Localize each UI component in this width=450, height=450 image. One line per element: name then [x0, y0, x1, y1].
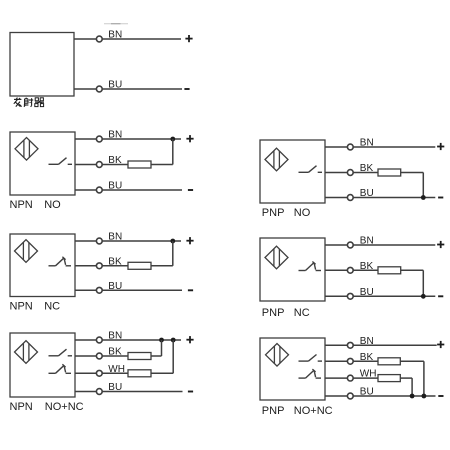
svg-text:BU: BU [108, 281, 122, 292]
svg-text:BN: BN [360, 336, 374, 347]
svg-text:BK: BK [108, 256, 122, 267]
svg-text:BN: BN [108, 130, 122, 141]
svg-text:PNP: PNP [262, 307, 285, 319]
svg-text:PNP: PNP [262, 405, 285, 417]
svg-text:NPN: NPN [10, 199, 33, 211]
svg-text:BN: BN [108, 30, 122, 41]
svg-text:BK: BK [108, 155, 122, 166]
svg-text:NPN: NPN [10, 401, 33, 413]
svg-text:BU: BU [108, 181, 122, 192]
svg-text:PNP: PNP [262, 207, 285, 219]
svg-text:BN: BN [108, 232, 122, 243]
svg-text:BK: BK [360, 261, 374, 272]
svg-text:BU: BU [108, 382, 122, 393]
svg-text:BU: BU [108, 80, 122, 91]
svg-text:BN: BN [108, 331, 122, 342]
svg-text:BK: BK [360, 163, 374, 174]
svg-text:WH: WH [108, 364, 125, 375]
svg-text:NO+NC: NO+NC [45, 401, 84, 413]
svg-text:NC: NC [44, 301, 60, 313]
svg-text:NO: NO [44, 199, 61, 211]
svg-text:BU: BU [360, 287, 374, 298]
svg-text:BN: BN [360, 138, 374, 149]
svg-text:BU: BU [360, 188, 374, 199]
svg-text:BN: BN [360, 236, 374, 247]
svg-text:WH: WH [360, 369, 377, 380]
svg-text:NPN: NPN [10, 301, 33, 313]
svg-text:NO+NC: NO+NC [294, 405, 333, 417]
svg-text:NC: NC [294, 307, 310, 319]
svg-text:NO: NO [294, 207, 311, 219]
svg-text:BK: BK [360, 352, 374, 363]
svg-text:BK: BK [108, 347, 122, 358]
svg-text:BU: BU [360, 387, 374, 398]
